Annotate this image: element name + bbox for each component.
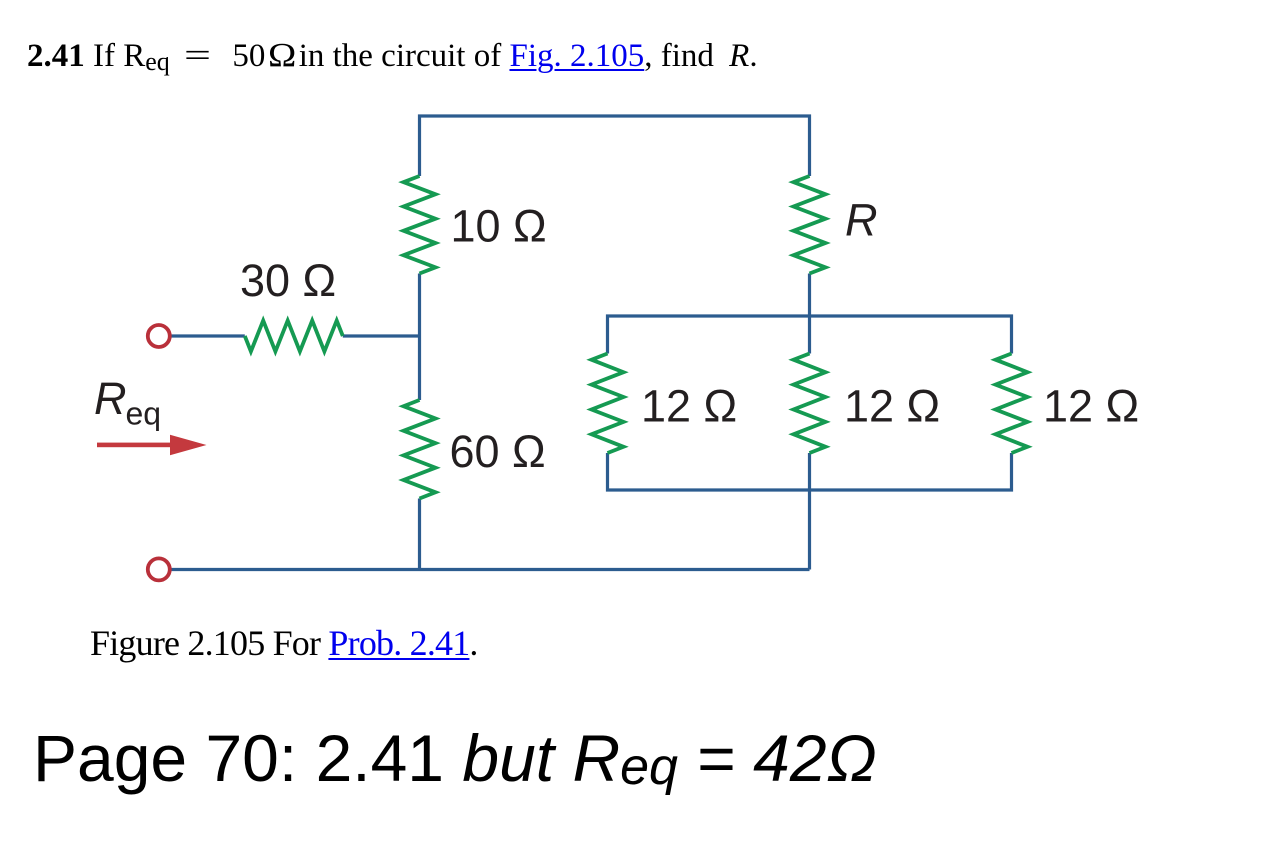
svg-text:eq: eq [126,396,162,432]
svg-text:60 Ω: 60 Ω [450,426,546,477]
svg-text:10 Ω: 10 Ω [451,201,547,252]
svg-text:12 Ω: 12 Ω [1043,381,1139,432]
svg-text:12 Ω: 12 Ω [844,381,940,432]
svg-text:30 Ω: 30 Ω [240,255,336,306]
svg-text:R: R [845,195,878,246]
svg-text:R: R [94,373,127,424]
svg-text:12 Ω: 12 Ω [641,381,737,432]
